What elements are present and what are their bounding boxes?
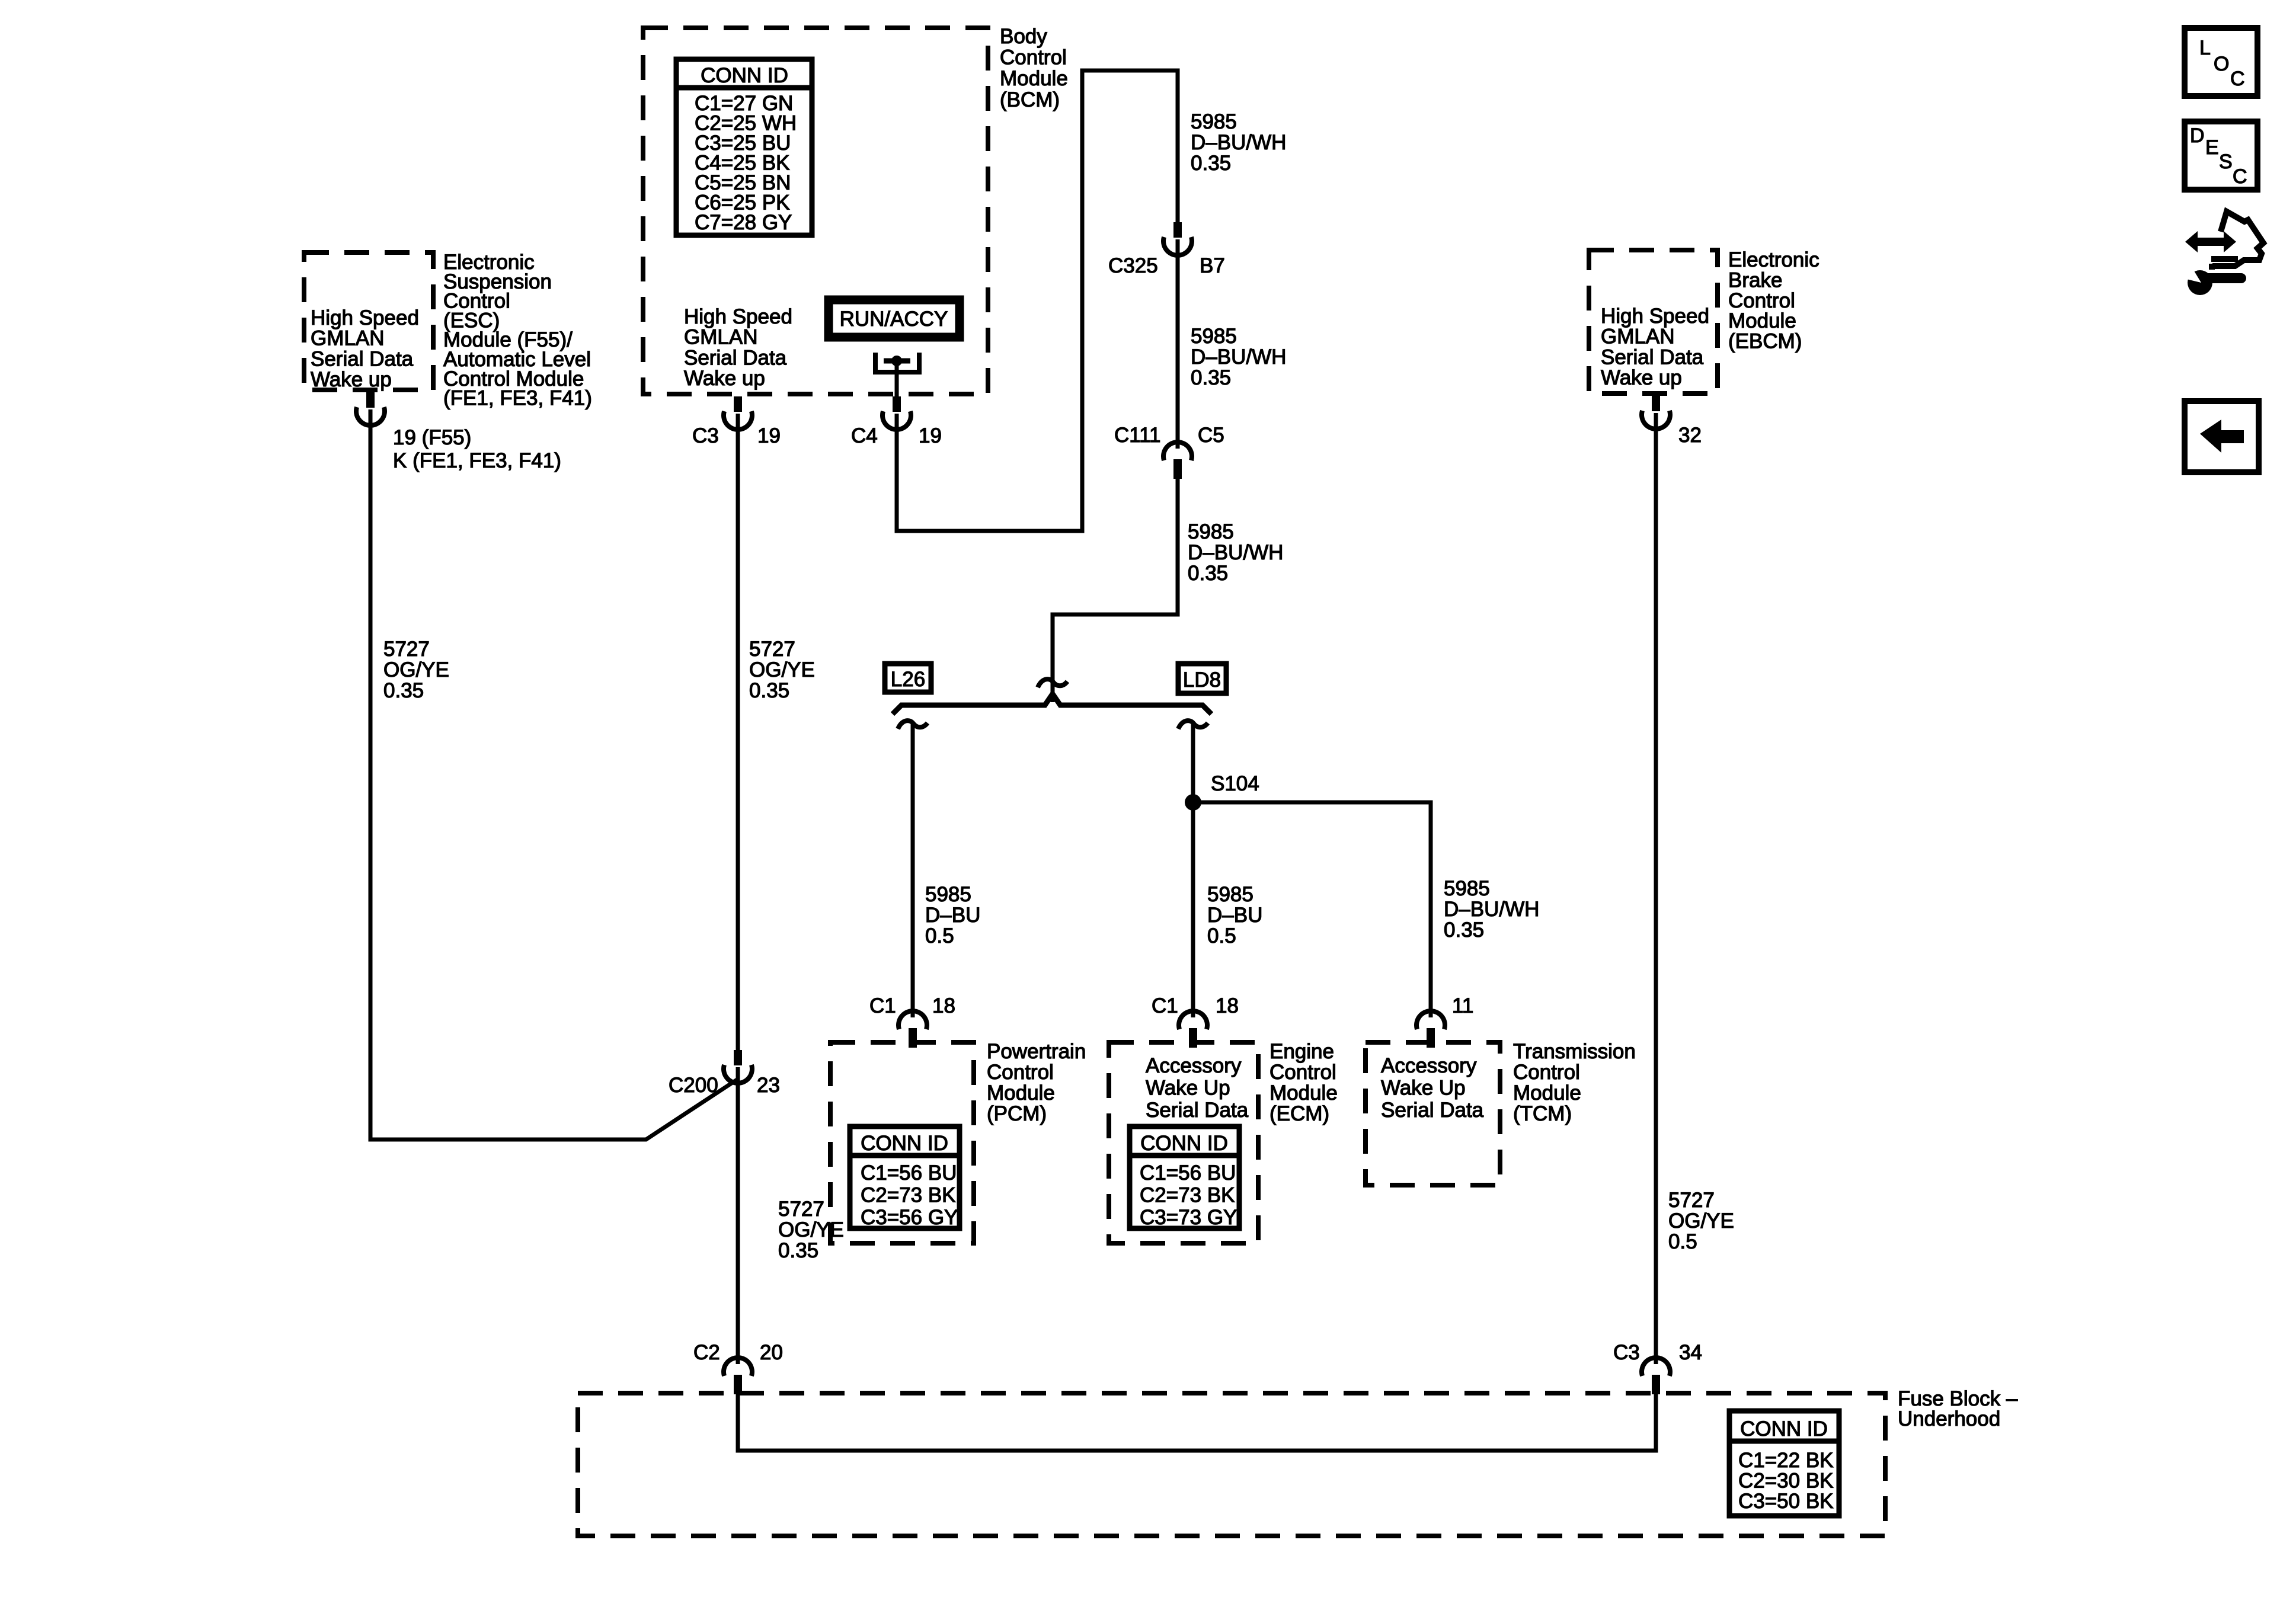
svg-text:19: 19 [919, 424, 942, 447]
connector C3 pin 19 [724, 396, 752, 430]
svg-text:O: O [2214, 53, 2229, 75]
svg-text:C2=73 BK: C2=73 BK [1140, 1184, 1235, 1207]
svg-text:C1: C1 [1152, 994, 1178, 1017]
ignition switch symbol [873, 353, 922, 396]
ECM module box [1109, 1042, 1258, 1243]
svg-text:C5: C5 [1198, 424, 1224, 447]
svg-text:RUN/ACCY: RUN/ACCY [840, 308, 948, 331]
svg-text:C4: C4 [851, 424, 878, 447]
PCM module box [830, 1042, 974, 1243]
svg-text:EngineControlModule(ECM): EngineControlModule(ECM) [1269, 1040, 1338, 1125]
Fuse Block - Underhood box [578, 1393, 1885, 1536]
svg-text:C3=50 BK: C3=50 BK [1738, 1490, 1834, 1513]
wire 5985 D-BU to PCM [911, 722, 915, 1017]
inline connector left drop [898, 721, 928, 729]
svg-text:11: 11 [1452, 994, 1473, 1017]
connector C3 pin 34 [1642, 1358, 1670, 1394]
svg-text:L: L [2199, 37, 2211, 59]
PCM CONN ID table [850, 1126, 960, 1229]
back arrow icon box [2185, 401, 2259, 472]
svg-text:C: C [2230, 68, 2245, 90]
Fuse block CONN ID table [1729, 1411, 1839, 1516]
svg-text:C3=56 GY: C3=56 GY [861, 1206, 958, 1229]
svg-text:20: 20 [760, 1341, 783, 1364]
svg-text:E: E [2205, 136, 2219, 159]
connector C4 pin 19 [882, 396, 911, 430]
svg-text:B7: B7 [1200, 254, 1225, 277]
svg-text:S104: S104 [1211, 772, 1259, 795]
brace bus L26/LD8 [893, 694, 1211, 714]
splice S104 [1185, 794, 1201, 811]
svg-text:L26: L26 [891, 668, 925, 691]
svg-text:C1=56 BU: C1=56 BU [861, 1161, 957, 1185]
inline connector above brace [1038, 679, 1067, 687]
svg-text:S: S [2219, 151, 2233, 173]
svg-text:19: 19 [757, 424, 781, 447]
connector ECM C1 pin 18 [1179, 1011, 1207, 1048]
ESC module box [304, 252, 433, 390]
BCM CONN ID table [676, 59, 812, 235]
wire 5727 below C200 [736, 1067, 740, 1364]
connector C200 pin 23 [724, 1050, 752, 1083]
connector ESC pin 19 [356, 392, 385, 425]
svg-text:C1=56 BU: C1=56 BU [1140, 1161, 1236, 1185]
svg-text:LD8: LD8 [1183, 668, 1221, 692]
svg-text:18: 18 [1216, 994, 1239, 1017]
ECM CONN ID table [1130, 1126, 1239, 1229]
svg-text:C200: C200 [669, 1074, 718, 1097]
svg-text:34: 34 [1679, 1341, 1702, 1364]
svg-text:C: C [2233, 165, 2247, 188]
TCM module box [1366, 1042, 1500, 1185]
diagnostic car-and-wrench icon [2184, 212, 2263, 295]
L26 tag [885, 664, 931, 692]
svg-text:CONN ID: CONN ID [1740, 1417, 1828, 1441]
svg-text:C111: C111 [1114, 424, 1160, 447]
svg-text:D: D [2190, 124, 2205, 147]
connector TCM pin 11 [1416, 1011, 1445, 1048]
svg-text:C2: C2 [693, 1341, 720, 1364]
wire inside fuse block [738, 1393, 1656, 1451]
connector C325 pin B7 [1163, 222, 1192, 255]
svg-text:C2=30 BK: C2=30 BK [1738, 1470, 1834, 1493]
svg-text:C3: C3 [1613, 1341, 1640, 1364]
svg-text:32: 32 [1678, 424, 1702, 447]
svg-text:C2=73 BK: C2=73 BK [861, 1184, 956, 1207]
connector PCM C1 pin 18 [898, 1011, 927, 1048]
svg-text:C1: C1 [869, 994, 896, 1017]
RUN/ACCY box [829, 300, 960, 337]
svg-text:23: 23 [757, 1074, 780, 1097]
svg-text:C3: C3 [692, 424, 719, 447]
BCM module box [643, 28, 988, 394]
wire 5985 below C111 [1053, 474, 1178, 702]
wire 5985 D-BU to ECM [1191, 722, 1195, 1017]
wire 5985 C325 to C111 [1176, 239, 1180, 449]
svg-text:18: 18 [932, 994, 955, 1017]
svg-text:C3=73 GY: C3=73 GY [1140, 1206, 1237, 1229]
wire 5727 OG/YE from ESC [370, 409, 738, 1140]
EBCM module box [1589, 250, 1718, 393]
wire 5727 below C3 [736, 414, 740, 1050]
svg-text:CONN ID: CONN ID [861, 1132, 948, 1155]
DESC icon box [2185, 121, 2257, 190]
svg-text:CONN ID: CONN ID [701, 64, 788, 87]
LOC icon box [2185, 28, 2257, 96]
svg-text:C1=22 BK: C1=22 BK [1738, 1449, 1834, 1472]
wire 5985 from BCM C4 [897, 71, 1178, 531]
connector C2 pin 20 [724, 1358, 752, 1394]
LD8 tag [1178, 664, 1226, 693]
inline connector right drop [1178, 721, 1208, 729]
connector C111 pin C5 [1163, 442, 1192, 479]
svg-text:CONN ID: CONN ID [1140, 1132, 1228, 1155]
svg-text:C325: C325 [1108, 254, 1158, 277]
svg-text:C7=28 GY: C7=28 GY [695, 211, 792, 234]
connector EBCM pin 32 [1642, 396, 1670, 429]
svg-text:Fuse Block –Underhood: Fuse Block –Underhood [1898, 1387, 2018, 1430]
wire 5985 D-BU/WH to TCM [1193, 802, 1431, 1017]
wire 5727 OG/YE from EBCM [1654, 413, 1658, 1364]
